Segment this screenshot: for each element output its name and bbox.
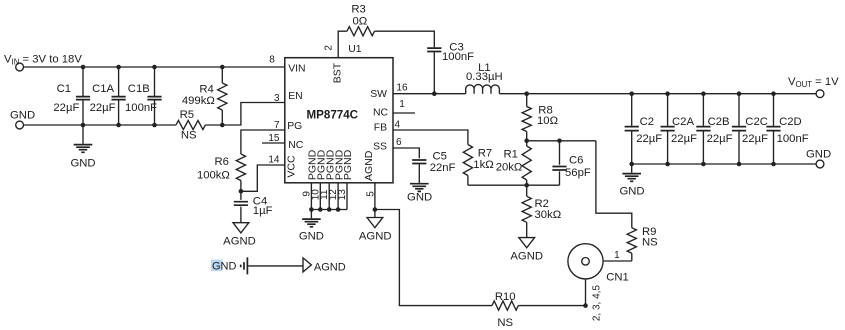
svg-text:C2B: C2B	[708, 116, 730, 128]
svg-text:30kΩ: 30kΩ	[535, 209, 562, 221]
svg-text:C1B: C1B	[128, 83, 150, 95]
capacitor C1B	[125, 65, 162, 128]
svg-text:15: 15	[268, 133, 280, 144]
svg-text:SS: SS	[373, 141, 387, 152]
node VOUT terminal	[788, 76, 839, 98]
capacitor C6	[552, 141, 590, 185]
net-tie ground bars	[241, 257, 248, 274]
svg-text:MP8774C: MP8774C	[307, 109, 359, 122]
wire CN1 shield	[586, 279, 603, 321]
resistor R8	[522, 94, 558, 141]
svg-text:C5: C5	[433, 150, 447, 162]
wire SS node	[393, 148, 419, 158]
resistor R7	[463, 145, 493, 186]
svg-text:NS: NS	[497, 317, 513, 329]
svg-text:100kΩ: 100kΩ	[197, 169, 230, 181]
svg-text:NC: NC	[288, 140, 304, 151]
svg-text:VIN = 3V to 18V: VIN = 3V to 18V	[4, 54, 82, 67]
svg-text:BST: BST	[332, 62, 344, 83]
wire SW to L1	[393, 91, 466, 96]
wire EN node	[205, 103, 284, 126]
svg-text:2, 3, 4,5: 2, 3, 4,5	[591, 285, 602, 322]
wire VIN rail	[24, 66, 285, 68]
capacitor C1	[53, 65, 90, 125]
wire VCC node	[239, 165, 285, 194]
svg-text:16: 16	[396, 82, 408, 93]
capacitor C2A	[661, 91, 698, 166]
wire output GND rail	[632, 163, 816, 165]
wire R3 to C3	[375, 31, 435, 47]
resistor R1	[496, 139, 532, 186]
wire net-tie	[248, 265, 303, 267]
wire PG node	[241, 130, 285, 154]
svg-text:22µF: 22µF	[90, 102, 116, 114]
svg-text:R6: R6	[214, 156, 228, 168]
svg-text:100nF: 100nF	[777, 133, 809, 145]
svg-text:C2C: C2C	[745, 116, 768, 128]
pins 9-13 PGND labels	[301, 149, 354, 200]
svg-text:R1: R1	[504, 149, 518, 161]
connector CN1	[568, 244, 629, 284]
svg-text:C2A: C2A	[672, 116, 694, 128]
pin 2 BST label	[323, 45, 343, 84]
resistor R9	[627, 226, 658, 261]
pin 3 EN label	[274, 91, 303, 104]
svg-text:R4: R4	[199, 83, 213, 95]
svg-text:PG: PG	[287, 121, 302, 132]
svg-text:20kΩ: 20kΩ	[496, 162, 523, 174]
capacitor C2D	[766, 91, 808, 166]
ground AGND under pin 5	[359, 218, 392, 243]
svg-text:C1A: C1A	[92, 83, 114, 95]
svg-text:NS: NS	[181, 130, 197, 142]
svg-text:22µF: 22µF	[671, 133, 697, 145]
node GND input terminal	[10, 109, 35, 128]
pin 15 NC label	[268, 133, 303, 151]
svg-text:22µF: 22µF	[53, 102, 79, 114]
svg-text:VIN: VIN	[288, 63, 305, 74]
svg-text:499kΩ: 499kΩ	[182, 95, 215, 107]
capacitor C3	[427, 42, 474, 94]
svg-text:100nF: 100nF	[125, 102, 157, 114]
pin 5 AGND label	[363, 150, 377, 197]
ground AGND under R2	[510, 238, 543, 263]
wire C6 top branch	[527, 139, 596, 144]
svg-text:NC: NC	[373, 107, 389, 118]
svg-text:C6: C6	[569, 155, 583, 167]
resistor R4	[182, 65, 227, 128]
pin 8 VIN label	[269, 54, 305, 74]
op-amp U1 MP8774C body	[285, 58, 393, 183]
svg-text:0Ω: 0Ω	[353, 15, 368, 27]
wire FB node	[393, 130, 468, 145]
wire GND rail	[24, 124, 177, 126]
svg-text:1kΩ: 1kΩ	[473, 159, 493, 171]
wire FB bottom node	[468, 183, 560, 188]
svg-text:GND: GND	[10, 109, 35, 121]
svg-text:GND: GND	[212, 261, 237, 273]
svg-text:GND: GND	[70, 157, 95, 169]
svg-text:GND: GND	[619, 185, 644, 197]
capacitor C1A	[90, 65, 126, 128]
svg-text:6: 6	[396, 137, 402, 148]
svg-text:AGND: AGND	[363, 150, 375, 181]
svg-text:GND: GND	[806, 148, 831, 160]
svg-text:CN1: CN1	[606, 272, 629, 284]
svg-text:4: 4	[395, 119, 401, 130]
svg-text:14: 14	[268, 155, 280, 166]
svg-text:2: 2	[323, 45, 334, 51]
svg-text:22nF: 22nF	[430, 162, 456, 174]
inductor L1	[466, 62, 503, 94]
capacitor C2C	[732, 91, 768, 166]
wire CN1 pin 1	[589, 250, 631, 261]
wire AGND pin 5	[373, 183, 378, 218]
svg-text:R7: R7	[478, 147, 492, 159]
U1 designator label	[348, 44, 362, 55]
resistor R6	[197, 154, 246, 191]
svg-text:EN: EN	[288, 91, 302, 102]
wire BST pin 2	[338, 31, 347, 58]
svg-text:3: 3	[274, 93, 280, 104]
svg-text:R2: R2	[535, 198, 549, 210]
resistor R5	[176, 109, 205, 142]
net-tie GND label	[211, 260, 237, 273]
wire R10 to CN1	[518, 303, 588, 308]
svg-text:AGND: AGND	[223, 235, 256, 247]
wire NC pin1 stub	[393, 112, 415, 114]
svg-text:SW: SW	[370, 89, 387, 100]
ground AGND under C4	[223, 223, 256, 248]
resistor R3	[347, 4, 375, 36]
wire R9 branch	[596, 141, 632, 228]
svg-text:AGND: AGND	[314, 262, 346, 274]
svg-text:22µF: 22µF	[742, 133, 768, 145]
svg-text:10Ω: 10Ω	[537, 115, 558, 127]
svg-text:AGND: AGND	[510, 251, 543, 263]
svg-text:C1: C1	[57, 83, 71, 95]
svg-text:1: 1	[399, 99, 405, 110]
ground GND under PGND	[299, 210, 324, 243]
svg-text:U1: U1	[348, 44, 362, 55]
svg-text:22µF: 22µF	[707, 133, 733, 145]
svg-text:C2D: C2D	[779, 116, 802, 128]
svg-text:FB: FB	[374, 122, 387, 133]
svg-text:VOUT = 1V: VOUT = 1V	[788, 76, 839, 89]
svg-text:GND: GND	[407, 192, 432, 204]
svg-text:AGND: AGND	[359, 230, 392, 242]
svg-text:22µF: 22µF	[636, 133, 662, 145]
ground GND under C2	[619, 164, 644, 197]
capacitor C5	[412, 150, 455, 183]
capacitor C2	[625, 91, 663, 166]
svg-text:7: 7	[274, 120, 280, 131]
resistor R2	[522, 185, 561, 237]
pin 14 VCC label	[268, 155, 297, 178]
svg-text:1µF: 1µF	[253, 205, 273, 217]
pin 1 NC label	[373, 99, 405, 118]
net-tie AGND arrow	[303, 258, 346, 274]
ground GND under input rail	[70, 123, 95, 170]
wire VOUT rail	[499, 91, 816, 96]
svg-text:100nF: 100nF	[442, 51, 474, 63]
node VIN input terminal	[4, 54, 82, 71]
svg-text:56pF: 56pF	[565, 167, 591, 179]
node GND output terminal	[806, 148, 831, 168]
capacitor C2B	[696, 91, 732, 166]
svg-text:NS: NS	[642, 237, 658, 249]
pin 4 FB label	[374, 119, 401, 133]
pin 6 SS label	[373, 137, 402, 153]
svg-text:R10: R10	[495, 291, 516, 303]
svg-text:C2: C2	[640, 116, 654, 128]
svg-text:1: 1	[614, 250, 620, 261]
wire PGND pins bus	[309, 183, 347, 212]
U1 label MP8774C	[307, 109, 359, 122]
pin 16 SW label	[370, 82, 408, 100]
svg-text:R5: R5	[180, 109, 194, 121]
wire AGND to R10	[375, 210, 492, 306]
svg-text:R3: R3	[351, 4, 365, 16]
svg-text:0.33µH: 0.33µH	[466, 71, 503, 83]
svg-text:VCC: VCC	[285, 155, 297, 178]
resistor R10	[492, 291, 518, 329]
wire NC pin15 stub	[262, 142, 285, 144]
svg-text:8: 8	[269, 54, 275, 65]
svg-text:GND: GND	[299, 230, 324, 242]
svg-text:PGND: PGND	[342, 149, 354, 180]
capacitor C4	[234, 191, 273, 222]
ground GND under C5	[407, 183, 432, 204]
pin 7 PG label	[274, 120, 302, 132]
